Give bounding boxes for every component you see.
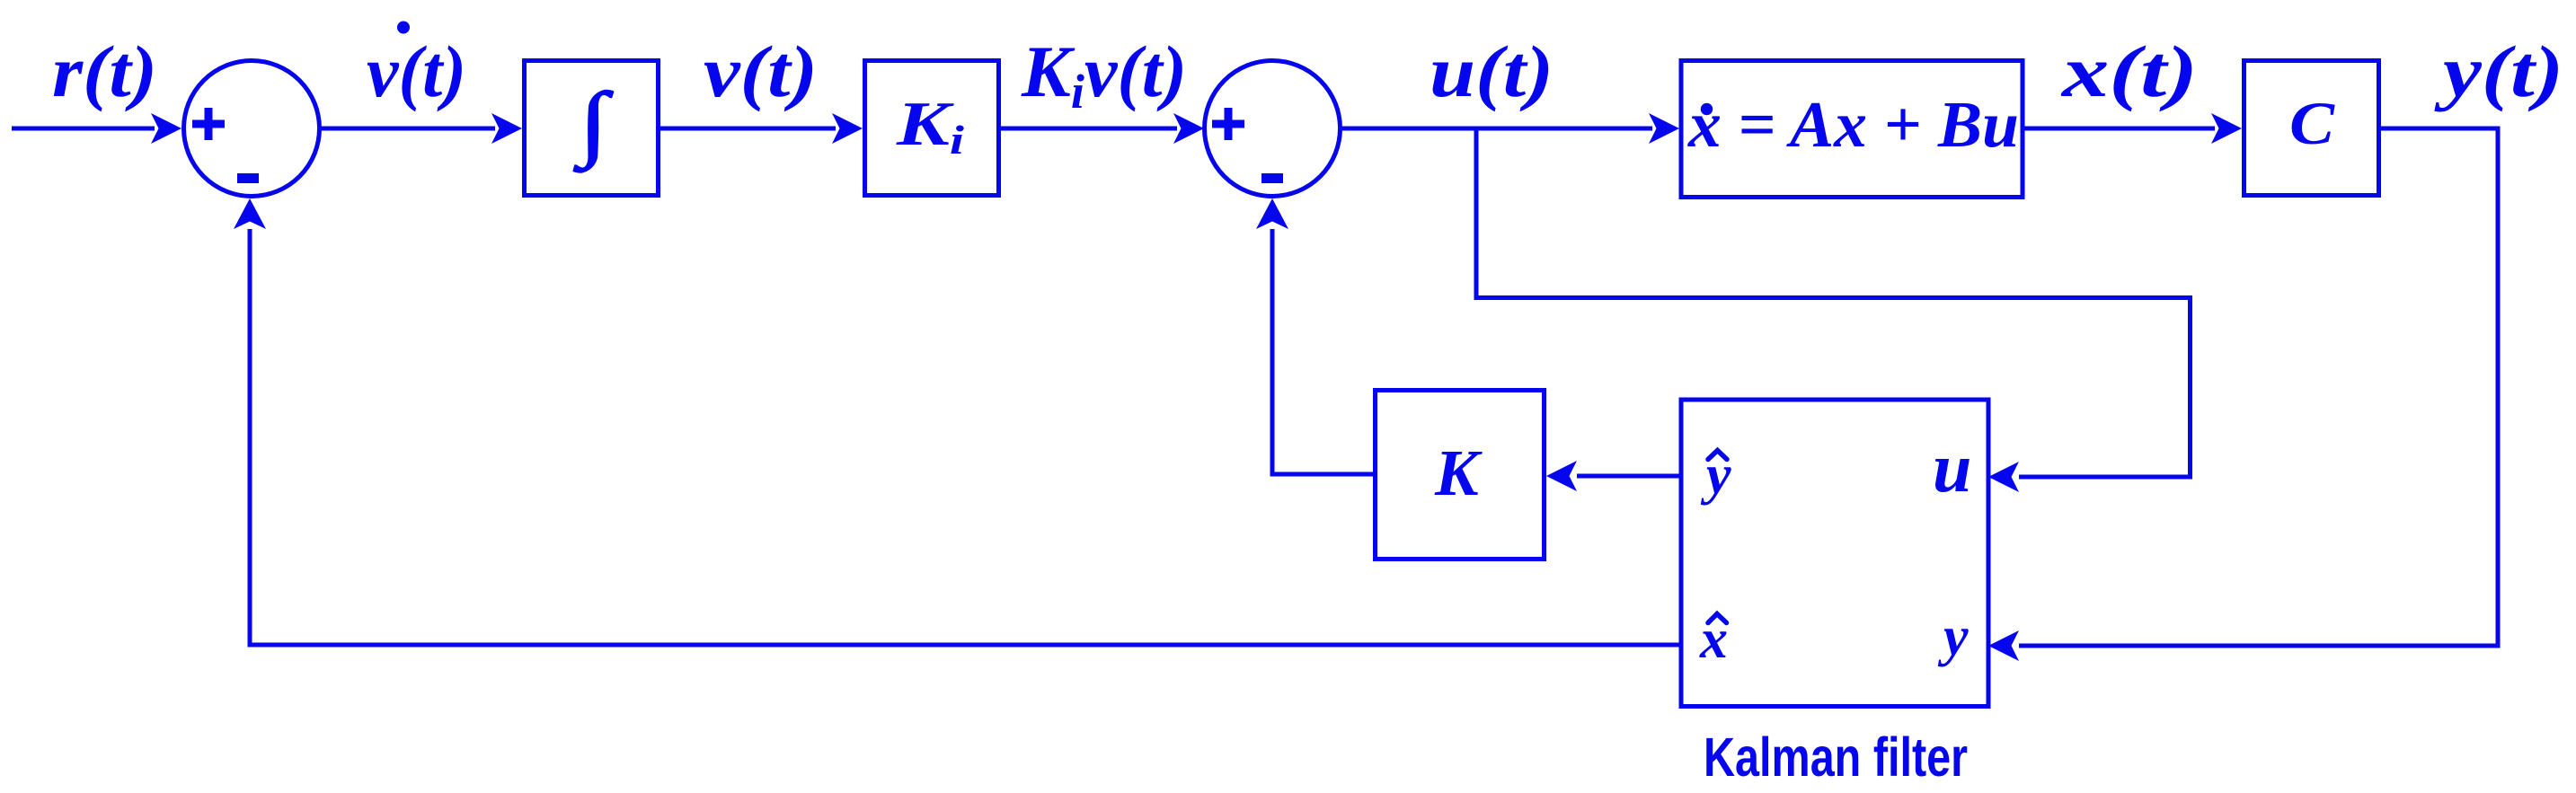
svg-text:x = Ax + Bu: x = Ax + Bu	[1687, 88, 2019, 161]
dot over v of vdot label	[397, 22, 410, 34]
arrowhead into sum2 bottom	[1256, 198, 1288, 229]
wire input r(t)	[12, 127, 155, 131]
wire u branch feedback	[1476, 131, 2191, 478]
arrowhead into Ki	[832, 113, 863, 144]
Kalman filter box	[1681, 400, 1988, 707]
arrowhead into sum1 bottom	[234, 198, 266, 229]
wire K to sum2 bottom	[1272, 229, 1373, 474]
summing junction sum1	[184, 61, 320, 197]
svg-text:C: C	[2289, 89, 2335, 157]
arrowhead into Kalman y port	[1988, 630, 2019, 661]
svg-text:r(t): r(t)	[52, 31, 157, 112]
plus sign sum2	[1212, 108, 1244, 140]
arrowhead into C	[2211, 113, 2242, 144]
output block C box	[2244, 61, 2379, 196]
integrator block box	[525, 61, 659, 196]
plant block box	[1681, 61, 2023, 198]
svg-text:y(t): y(t)	[2433, 31, 2563, 112]
integral symbol in integrator block	[573, 75, 614, 173]
hat over yhat port label	[1708, 451, 1727, 460]
hat over xhat port label	[1708, 614, 1727, 623]
wire Ki to sum2	[1001, 127, 1177, 131]
wire integrator to Ki	[660, 127, 836, 131]
wire Kalman yhat to K	[1577, 474, 1681, 479]
plus sign sum1	[192, 108, 225, 140]
gain block Ki box	[865, 61, 999, 196]
svg-text:x: x	[1699, 609, 1728, 670]
arrowhead into integrator	[491, 113, 522, 144]
minus sign sum2	[1261, 173, 1283, 183]
gain block K box	[1376, 391, 1545, 560]
wire C to y feedback corner	[2019, 128, 2498, 646]
arrowhead into plant	[1649, 113, 1679, 144]
minus sign sum1	[237, 173, 259, 183]
svg-text:u(t): u(t)	[1430, 31, 1554, 112]
svg-text:v(t): v(t)	[704, 31, 818, 112]
summing junction sum2	[1205, 61, 1341, 197]
wire sum1 to integrator	[319, 127, 495, 131]
svg-text:x(t): x(t)	[2061, 31, 2198, 112]
svg-text:K: K	[1434, 436, 1483, 509]
svg-text:Kalman filter: Kalman filter	[1704, 727, 1968, 789]
arrowhead into K block	[1546, 461, 1577, 491]
dot over x in plant equation	[1701, 103, 1713, 116]
arrowhead into sum1	[151, 113, 181, 144]
svg-text:u: u	[1933, 428, 1971, 507]
svg-text:Kiv(t): Kiv(t)	[1021, 31, 1187, 119]
svg-text:v(t): v(t)	[367, 31, 466, 112]
arrowhead into sum2	[1173, 113, 1204, 144]
wire Kalman xhat to sum1 bottom	[250, 229, 1681, 645]
wire sum2 to plant	[1340, 127, 1652, 131]
arrowhead into Kalman u port	[1988, 462, 2019, 492]
wire plant to C	[2024, 127, 2215, 131]
